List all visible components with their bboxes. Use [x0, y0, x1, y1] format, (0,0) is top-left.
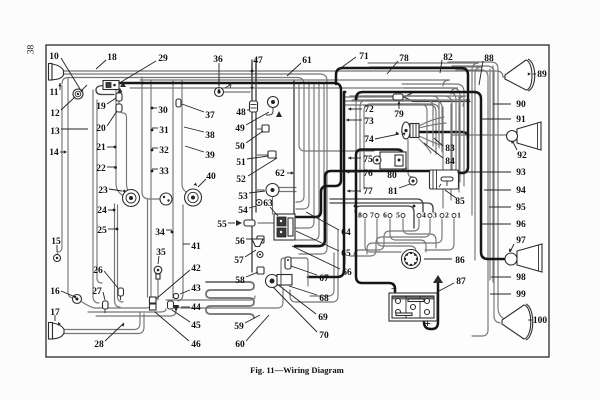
svg-text:71: 71 [359, 52, 369, 62]
svg-text:41: 41 [191, 242, 201, 252]
svg-text:97: 97 [516, 236, 526, 246]
svg-text:45: 45 [191, 321, 201, 331]
svg-text:37: 37 [205, 111, 215, 121]
svg-text:93: 93 [516, 168, 526, 178]
svg-text:39: 39 [205, 151, 215, 161]
svg-text:10: 10 [49, 52, 59, 62]
svg-text:12: 12 [50, 109, 60, 119]
svg-text:46: 46 [191, 340, 201, 350]
svg-text:29: 29 [158, 54, 168, 64]
svg-text:35: 35 [156, 248, 166, 258]
svg-text:1: 1 [457, 211, 461, 220]
svg-text:47: 47 [253, 56, 263, 66]
svg-text:3: 3 [433, 211, 437, 220]
svg-text:84: 84 [445, 157, 455, 167]
svg-text:63: 63 [263, 199, 273, 209]
svg-text:38: 38 [27, 45, 37, 55]
svg-text:87: 87 [456, 277, 466, 287]
svg-text:100: 100 [533, 316, 548, 326]
svg-text:75: 75 [363, 155, 373, 165]
svg-text:22: 22 [96, 164, 106, 174]
svg-text:Fig. 11—Wiring Diagram: Fig. 11—Wiring Diagram [250, 365, 344, 375]
svg-text:78: 78 [399, 54, 409, 64]
svg-text:19: 19 [96, 102, 106, 112]
svg-text:15: 15 [51, 237, 61, 247]
svg-text:74: 74 [364, 135, 374, 145]
svg-text:49: 49 [235, 124, 245, 134]
svg-text:14: 14 [49, 148, 59, 158]
svg-text:16: 16 [50, 287, 60, 297]
svg-text:+: + [424, 316, 431, 330]
svg-text:79: 79 [394, 110, 404, 120]
svg-text:72: 72 [364, 105, 374, 115]
svg-text:25: 25 [97, 226, 107, 236]
svg-text:96: 96 [516, 220, 526, 230]
svg-text:68: 68 [319, 294, 329, 304]
svg-text:65: 65 [341, 249, 351, 259]
svg-text:92: 92 [517, 151, 527, 161]
svg-text:50: 50 [235, 142, 245, 152]
svg-text:54: 54 [238, 206, 248, 216]
svg-text:48: 48 [236, 108, 246, 118]
svg-text:6: 6 [383, 211, 387, 220]
svg-text:69: 69 [318, 313, 328, 323]
svg-text:−: − [391, 284, 397, 295]
svg-text:86: 86 [455, 256, 465, 266]
svg-text:82: 82 [443, 53, 453, 63]
svg-text:55: 55 [217, 220, 227, 230]
svg-text:59: 59 [234, 322, 244, 332]
svg-text:70: 70 [319, 331, 329, 341]
svg-text:5: 5 [396, 211, 400, 220]
svg-text:26: 26 [93, 266, 103, 276]
svg-text:95: 95 [516, 203, 526, 213]
svg-text:64: 64 [341, 228, 351, 238]
svg-text:36: 36 [213, 55, 223, 65]
svg-text:81: 81 [388, 187, 398, 197]
svg-text:83: 83 [445, 144, 455, 154]
svg-text:51: 51 [236, 158, 246, 168]
svg-text:73: 73 [364, 117, 374, 127]
svg-text:85: 85 [455, 197, 465, 207]
svg-text:89: 89 [537, 70, 547, 80]
svg-text:76: 76 [363, 169, 373, 179]
svg-text:30: 30 [158, 106, 168, 116]
svg-text:60: 60 [235, 340, 245, 350]
svg-text:58: 58 [235, 276, 245, 286]
svg-text:38: 38 [205, 131, 215, 141]
svg-text:33: 33 [159, 167, 169, 177]
svg-text:80: 80 [387, 171, 397, 181]
svg-text:4: 4 [422, 211, 426, 220]
svg-text:77: 77 [363, 187, 373, 197]
svg-text:88: 88 [484, 54, 494, 64]
svg-text:7: 7 [370, 211, 374, 220]
svg-text:91: 91 [516, 115, 526, 125]
svg-text:61: 61 [302, 56, 312, 66]
svg-text:13: 13 [50, 127, 60, 137]
svg-text:56: 56 [235, 237, 245, 247]
svg-text:34: 34 [155, 228, 165, 238]
svg-text:57: 57 [234, 256, 244, 266]
svg-text:28: 28 [94, 340, 104, 350]
svg-text:90: 90 [516, 100, 526, 110]
svg-text:2: 2 [445, 211, 449, 220]
svg-text:66: 66 [342, 268, 352, 278]
svg-text:24: 24 [97, 206, 107, 216]
svg-text:42: 42 [191, 264, 201, 274]
svg-text:43: 43 [191, 284, 201, 294]
svg-text:52: 52 [236, 175, 246, 185]
svg-text:40: 40 [206, 172, 216, 182]
svg-text:8: 8 [358, 211, 362, 220]
svg-text:11: 11 [50, 88, 59, 98]
svg-text:21: 21 [96, 143, 106, 153]
svg-text:27: 27 [92, 287, 102, 297]
svg-text:32: 32 [159, 146, 169, 156]
svg-text:20: 20 [96, 124, 106, 134]
svg-text:94: 94 [516, 186, 526, 196]
svg-text:67: 67 [319, 274, 329, 284]
svg-text:44: 44 [191, 303, 201, 313]
svg-text:17: 17 [50, 308, 60, 318]
svg-text:53: 53 [238, 192, 248, 202]
svg-text:23: 23 [98, 186, 108, 196]
svg-text:31: 31 [159, 126, 169, 136]
svg-text:99: 99 [516, 290, 526, 300]
svg-text:18: 18 [107, 53, 117, 63]
svg-text:62: 62 [275, 169, 285, 179]
svg-text:98: 98 [516, 273, 526, 283]
